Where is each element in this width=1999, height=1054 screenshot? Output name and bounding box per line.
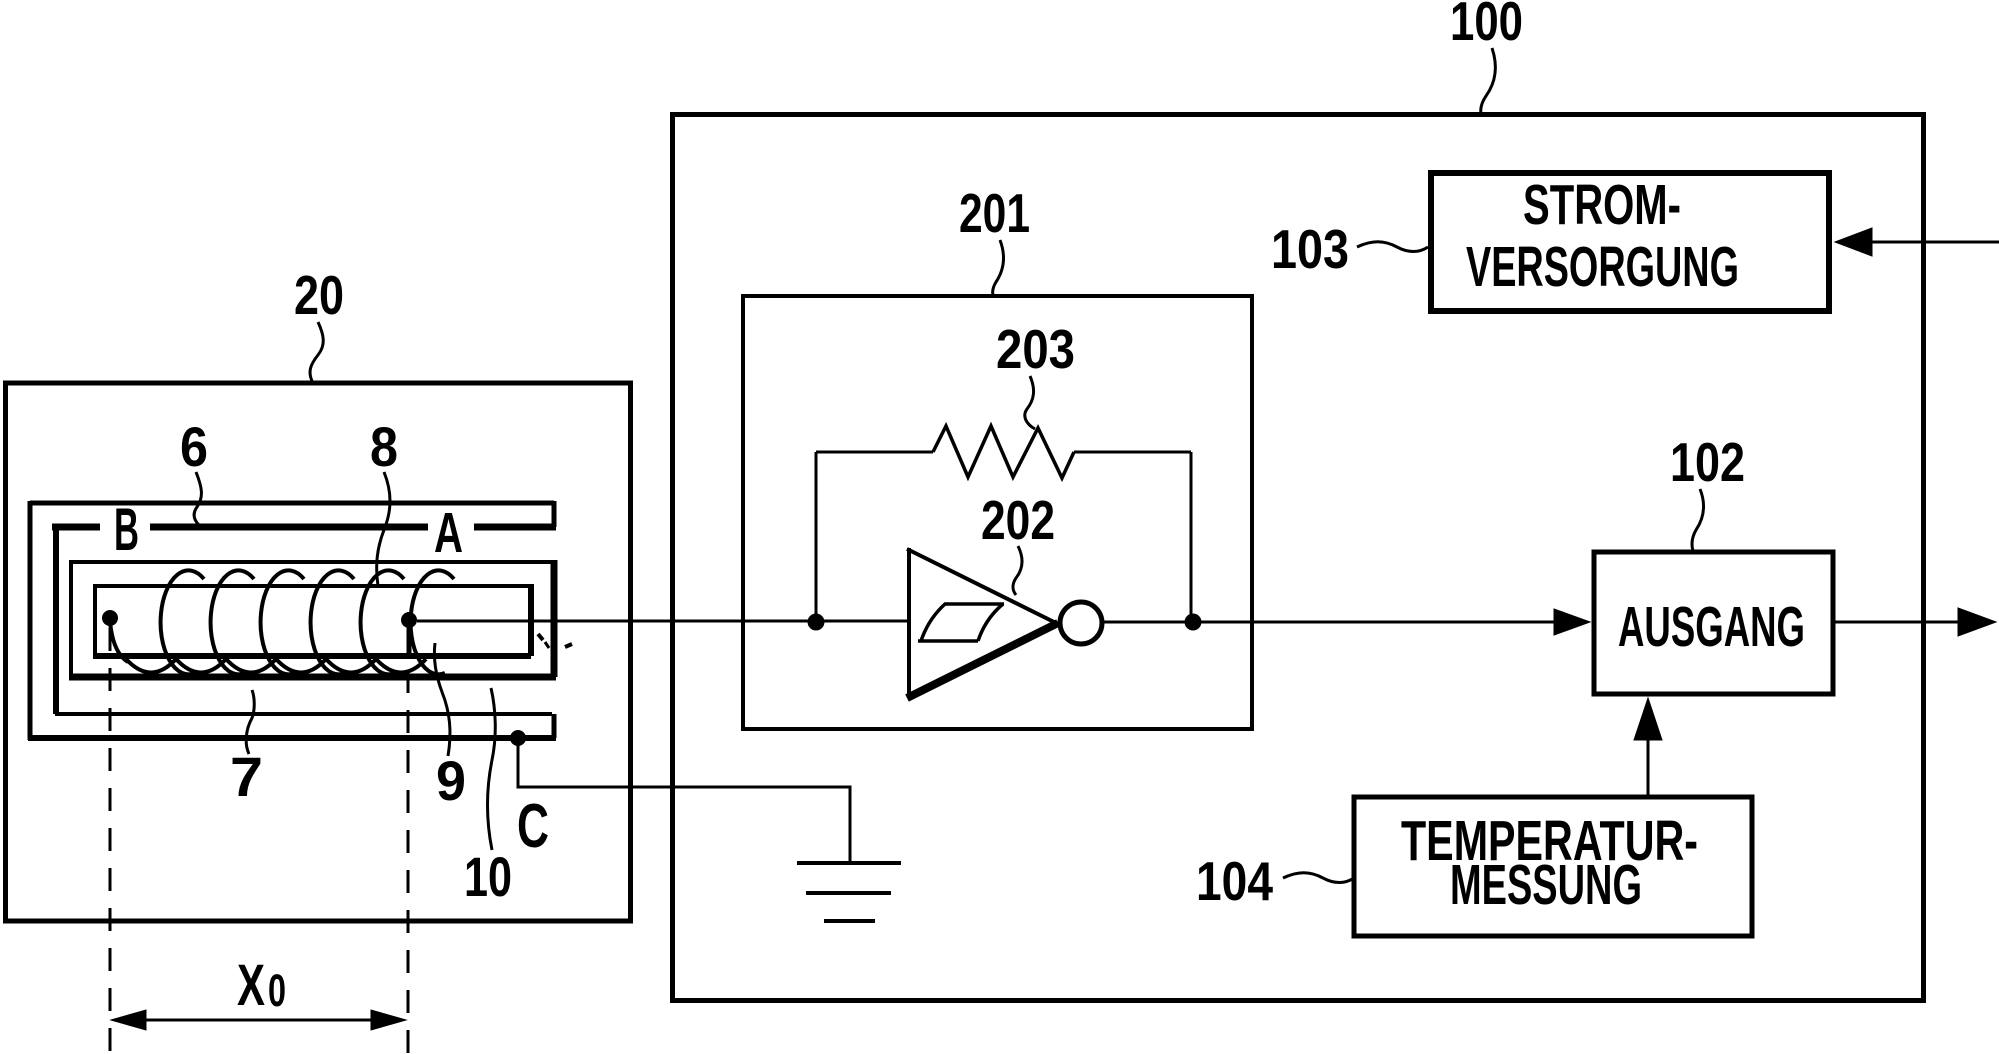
coil 8 bottom scallop 6 xyxy=(376,659,426,673)
section mark dash 2 xyxy=(545,642,549,648)
leader for 8 xyxy=(377,472,390,586)
leader for 203 xyxy=(1025,376,1035,429)
supply input wire xyxy=(1868,241,1999,244)
outer sleeve 6 bottom-right hook xyxy=(552,714,557,738)
oscillator box 201 xyxy=(743,296,1252,729)
temperature box 104 xyxy=(1354,797,1752,936)
electronics box 100 xyxy=(673,115,1924,1001)
outer sleeve 6 bottom edge xyxy=(28,735,556,741)
arrowhead into AUSGANG xyxy=(1554,609,1590,635)
coil 8 turn 3 xyxy=(261,570,304,674)
coil 8 turn 5 xyxy=(361,570,404,674)
leader for 103 xyxy=(1357,242,1428,252)
svg-text:103: 103 xyxy=(1271,218,1349,280)
coil 8 bottom scallop 3 xyxy=(226,659,276,673)
power supply box 103 xyxy=(1431,173,1829,311)
svg-text:202: 202 xyxy=(981,489,1055,551)
wire A to inverter xyxy=(417,620,909,623)
svg-text:X: X xyxy=(237,953,265,1018)
leader for 102 xyxy=(1692,489,1703,551)
schmitt inverter 202 triangle xyxy=(907,548,911,697)
leader for 104 xyxy=(1283,873,1354,883)
coil 8 turn 6 xyxy=(411,570,454,674)
svg-text:100: 100 xyxy=(1450,0,1523,52)
resistor 203 zigzag xyxy=(933,426,1074,478)
core 9 xyxy=(95,586,531,656)
feedback wire left xyxy=(815,452,818,622)
resistor 203 left lead xyxy=(816,451,933,454)
coil 8 bottom scallop 5 xyxy=(326,659,376,673)
coil 8 bottom scallop 4 xyxy=(276,659,326,673)
temp to output wire xyxy=(1647,738,1650,795)
outer sleeve 6 left wall xyxy=(28,501,33,740)
coil lead from B xyxy=(110,622,128,662)
dashed centerline at B xyxy=(109,628,112,1054)
output wire xyxy=(1835,621,1958,624)
dashed centerline at A xyxy=(407,630,410,1054)
ground symbol line 3 xyxy=(824,919,875,923)
outer sleeve 6 top edge xyxy=(30,501,554,506)
outer sleeve 6 inner left wall xyxy=(53,524,59,714)
terminal dot A xyxy=(401,612,417,628)
resistor 203 right lead xyxy=(1074,451,1191,454)
coil lead from A xyxy=(407,622,412,658)
leader for 20 xyxy=(310,322,323,381)
terminal dot C xyxy=(510,730,526,746)
hysteresis symbol xyxy=(918,639,978,643)
coil 8 bottom scallop 2 xyxy=(176,659,226,673)
outer sleeve 6 right notch xyxy=(552,501,557,527)
leader for 9 xyxy=(434,643,450,756)
dimension arrow X0 xyxy=(118,1019,399,1022)
svg-text:8: 8 xyxy=(370,415,398,478)
svg-text:A: A xyxy=(434,501,463,565)
leader for 100 xyxy=(1481,48,1496,114)
svg-text:10: 10 xyxy=(464,845,512,908)
svg-text:7: 7 xyxy=(230,745,263,808)
svg-text:203: 203 xyxy=(996,318,1075,380)
feedback wire right xyxy=(1190,452,1193,622)
leader for 202 xyxy=(1013,546,1022,595)
svg-text:9: 9 xyxy=(436,749,466,812)
svg-text:102: 102 xyxy=(1670,431,1745,493)
sensor housing box 20 xyxy=(6,383,631,921)
svg-text:20: 20 xyxy=(294,264,344,326)
node dot left xyxy=(808,614,825,631)
inverter bubble xyxy=(1060,602,1102,644)
leader for 10 xyxy=(488,688,496,850)
node dot right xyxy=(1185,614,1202,631)
svg-text:C: C xyxy=(517,792,549,861)
coil 8 bottom scallop 1 xyxy=(126,659,176,673)
temp arrowhead xyxy=(1634,698,1662,740)
svg-text:B: B xyxy=(114,496,139,563)
ground symbol line 1 xyxy=(797,861,901,865)
svg-text:AUSGANG: AUSGANG xyxy=(1618,595,1805,659)
output box 102 AUSGANG xyxy=(1594,552,1833,694)
leader for 201 xyxy=(993,240,1004,295)
svg-text:MESSUNG: MESSUNG xyxy=(1450,853,1642,917)
svg-text:VERSORGUNG: VERSORGUNG xyxy=(1466,235,1739,299)
wire inverter to output xyxy=(1101,621,1560,624)
svg-text:6: 6 xyxy=(180,415,208,478)
svg-text:STROM-: STROM- xyxy=(1523,173,1681,237)
section mark dash 1 xyxy=(538,634,543,640)
coil former 10 xyxy=(71,562,554,679)
supply arrowhead xyxy=(1835,228,1872,256)
leader for 7 xyxy=(246,690,254,754)
ground symbol line 2 xyxy=(806,891,891,895)
coil 8 turn 4 xyxy=(311,570,354,674)
ground wire from C xyxy=(518,741,850,861)
terminal dot B xyxy=(102,610,118,626)
outer sleeve 6 bottom arm inner line 7 xyxy=(55,712,552,716)
svg-text:0: 0 xyxy=(268,965,286,1016)
section mark dash 3 xyxy=(565,644,572,647)
svg-text:104: 104 xyxy=(1196,850,1273,912)
svg-text:201: 201 xyxy=(959,182,1030,244)
outer sleeve 6 inner top line B-A segments xyxy=(52,524,100,531)
leader for 6 xyxy=(194,472,201,525)
coil 8 turn 1 xyxy=(161,570,204,674)
coil 8 turn 2 xyxy=(211,570,254,674)
output arrowhead xyxy=(1958,608,1996,636)
